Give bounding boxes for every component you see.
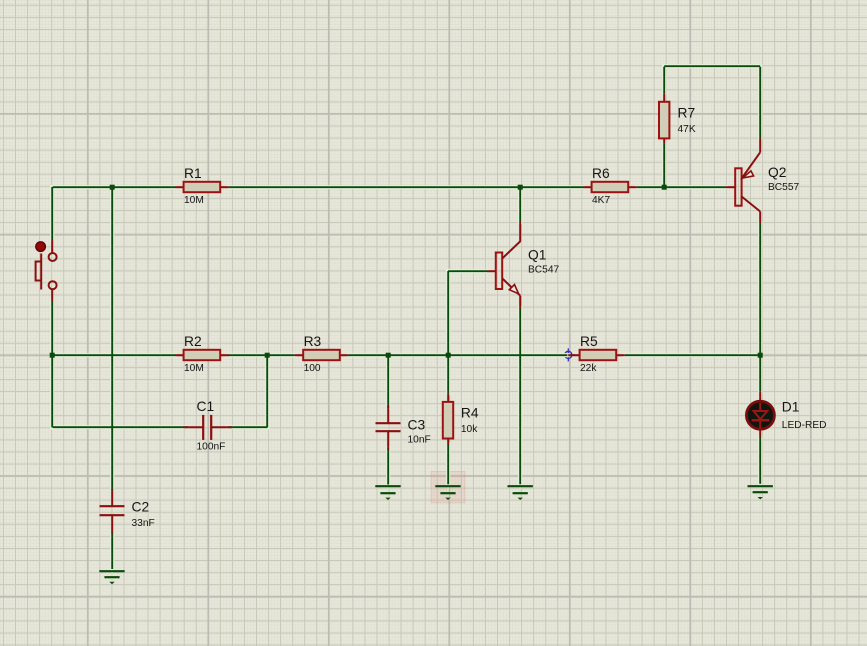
push button SW: [36, 240, 57, 301]
resistor R3 100: [295, 334, 349, 374]
wire Q2 emitter column: [759, 67, 761, 138]
wire C1 up to bus: [266, 355, 268, 427]
svg-text:R6: R6: [592, 166, 610, 181]
svg-text:LED-RED: LED-RED: [782, 420, 827, 431]
svg-text:33nF: 33nF: [132, 518, 155, 529]
svg-text:BC557: BC557: [768, 182, 799, 193]
wire top-right rail: [664, 65, 760, 67]
node bus / C1 right: [265, 353, 270, 358]
capacitor C3 10nF: [376, 406, 431, 450]
ground under C3: [375, 486, 400, 500]
svg-text:10M: 10M: [184, 363, 204, 374]
capacitor C2 33nF: [100, 489, 155, 533]
ground under R4: [435, 486, 460, 500]
wire button bottom: [51, 301, 53, 355]
wire C2 to ground: [111, 532, 113, 569]
wire bus 1: [53, 354, 175, 356]
svg-text:BC547: BC547: [528, 265, 559, 276]
node top rail / C2: [110, 185, 115, 190]
wire Q1 base vert: [447, 271, 449, 355]
svg-text:R7: R7: [678, 105, 696, 120]
wire Q2 collector down: [759, 224, 761, 392]
wire C3 top: [387, 355, 389, 408]
node top rail / R7: [662, 185, 667, 190]
wire C2 column: [111, 187, 113, 490]
wire bus 3: [348, 354, 567, 356]
svg-text:D1: D1: [782, 400, 800, 415]
resistor R5 22k: [568, 334, 625, 374]
resistor R6 4K7: [583, 166, 637, 206]
ground under Q1 emitter: [508, 486, 533, 500]
svg-text:R1: R1: [184, 166, 202, 181]
svg-text:Q1: Q1: [528, 248, 546, 263]
origin marker (blue) at R5 left pin: [562, 348, 575, 361]
transistor Q1 BC547 (NPN): [487, 222, 559, 309]
wire C1 left: [53, 426, 188, 428]
svg-text:C2: C2: [132, 500, 150, 515]
svg-text:R5: R5: [580, 334, 598, 349]
wire top rail right: [637, 186, 726, 188]
resistor R4 10k: [443, 394, 479, 445]
wire D1 to ground: [759, 437, 761, 484]
svg-text:100nF: 100nF: [197, 442, 226, 453]
wire bus 2: [228, 354, 295, 356]
wire R7 top to rail: [663, 67, 665, 94]
node top rail / Q1 collector: [518, 185, 523, 190]
svg-text:4K7: 4K7: [592, 195, 610, 206]
svg-text:10k: 10k: [461, 424, 478, 435]
transistor Q2 BC557 (PNP): [726, 138, 799, 224]
resistor R1 10M: [175, 166, 229, 206]
node bus / C3: [386, 353, 391, 358]
wire bus 4: [625, 354, 760, 356]
wire top rail mid: [229, 186, 583, 188]
svg-text:10M: 10M: [184, 195, 204, 206]
wire top rail left: [53, 186, 175, 188]
svg-text:C1: C1: [197, 399, 215, 414]
svg-text:R3: R3: [304, 334, 322, 349]
wire button col to C1: [51, 355, 53, 427]
wire button top: [51, 187, 53, 240]
wire R7 bottom: [663, 143, 665, 187]
resistor R7 47K: [659, 93, 696, 143]
resistor R2 10M: [175, 334, 229, 374]
ground under D1: [748, 486, 773, 499]
wire Q1 base horiz: [448, 270, 487, 272]
wire R4 top: [447, 355, 449, 394]
wire R4 to ground: [447, 444, 449, 484]
ground under C2: [99, 571, 124, 584]
LED D1 LED-RED: [746, 392, 826, 437]
wire Q1 collector up: [519, 187, 521, 222]
svg-text:Q2: Q2: [768, 165, 786, 180]
svg-text:R4: R4: [461, 405, 479, 420]
selection highlight box around R4 ground: [431, 472, 465, 504]
svg-text:22k: 22k: [580, 363, 597, 374]
wire C3 to ground: [387, 448, 389, 485]
svg-text:100: 100: [304, 363, 321, 374]
node bus / button column: [50, 353, 55, 358]
wire C1 right: [228, 426, 267, 428]
svg-text:47K: 47K: [678, 124, 696, 135]
svg-text:R2: R2: [184, 334, 202, 349]
capacitor C1 100nF: [184, 399, 232, 452]
svg-text:C3: C3: [408, 418, 426, 433]
wire halo: [52, 66, 760, 569]
svg-text:10nF: 10nF: [408, 435, 431, 446]
wire Q1 emitter down: [519, 308, 521, 484]
node bus / R4 Q1 base: [446, 353, 451, 358]
node bus / D1 column: [758, 353, 763, 358]
